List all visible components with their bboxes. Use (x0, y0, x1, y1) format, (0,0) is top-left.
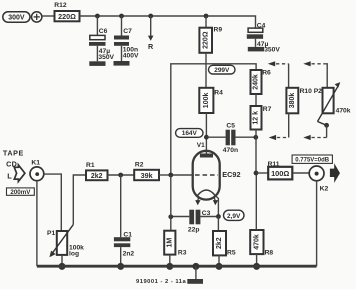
svg-text:R7: R7 (263, 106, 272, 113)
node dot P2 wiper (324, 123, 329, 128)
wire K1 ground drop (36, 181, 38, 267)
label 200mV (7, 188, 35, 196)
capacitor C3 22p (171, 210, 219, 234)
node dot cathode/C3 (216, 214, 221, 219)
node dot grid (168, 173, 173, 178)
resistor R4 100k (199, 88, 223, 113)
resistor R2 39k (134, 161, 159, 180)
ground C4 (248, 47, 264, 52)
svg-text:1M: 1M (166, 238, 173, 248)
svg-text:R2: R2 (135, 161, 144, 168)
wire R1 to R2 (108, 174, 135, 176)
svg-text:R10 P2: R10 P2 (300, 88, 323, 95)
wire output to R11 (256, 172, 268, 174)
svg-text:C3: C3 (202, 210, 211, 217)
node dot ground symbol (192, 263, 199, 270)
wire R4 to anode node (205, 113, 207, 155)
node dot R3/rail (166, 263, 173, 270)
wire R2 to grid node (159, 174, 171, 176)
cathode lead (215, 196, 218, 217)
svg-text:2,9V: 2,9V (227, 213, 241, 220)
resistor R5 2k2 (213, 217, 236, 257)
potentiometer P1 100k log (47, 225, 84, 258)
wire R6 to R7 (255, 94, 257, 106)
wire output node to R8 (255, 173, 257, 230)
svg-text:L: L (7, 171, 12, 180)
wire R3 to rail (169, 255, 171, 267)
svg-text:R6: R6 (262, 70, 271, 77)
wire rail to R9 (205, 16, 207, 28)
svg-text:R5: R5 (227, 249, 236, 256)
wire K1 to P1 top (44, 174, 62, 231)
ground C7 (114, 61, 130, 66)
ground (187, 266, 203, 284)
preset P2 470k (318, 82, 351, 125)
resistor R1 2k2 (86, 162, 108, 180)
node dot output (254, 171, 259, 176)
resistor R6 240k (251, 70, 272, 94)
capacitor C1 2n2 (114, 175, 135, 266)
resistor R10 380k (286, 88, 322, 114)
node dot anode (204, 135, 209, 140)
svg-text:380k: 380k (289, 93, 296, 109)
svg-text:log: log (69, 251, 79, 258)
wire R7 to output node (255, 130, 257, 174)
svg-text:2n2: 2n2 (123, 250, 135, 257)
svg-text:470k: 470k (336, 108, 351, 115)
svg-text:R9: R9 (214, 27, 223, 34)
resistor R7 12k (251, 106, 272, 130)
node dot R-arrow/rail (148, 14, 153, 19)
wire R5 to rail (218, 255, 220, 266)
wire R11 to K2 (292, 172, 309, 174)
capacitor C6 47µ 350V (89, 16, 115, 61)
svg-text:39k: 39k (141, 171, 153, 180)
wire P1 bottom to rail (61, 255, 63, 266)
resistor R9 220Ω (199, 27, 222, 53)
cathode (198, 190, 216, 196)
wire P2 wiper down (326, 125, 328, 137)
node dot C5/R7/R8 (253, 135, 258, 140)
dashed link bottom: arrow to output node (269, 135, 289, 140)
svg-text:200mV: 200mV (10, 189, 31, 196)
svg-text:470n: 470n (223, 147, 238, 154)
node 164V label (176, 129, 203, 138)
svg-text:919001 - 2 - 11a: 919001 - 2 - 11a (136, 279, 186, 285)
node dot grid/C3/R3 (168, 214, 173, 219)
output block arrow (330, 163, 340, 183)
node dot R5/rail (216, 263, 223, 270)
svg-text:R8: R8 (265, 249, 274, 256)
node dot C6/rail (95, 14, 100, 19)
wire grid node down to R3/C3 (170, 175, 172, 231)
svg-text:R3: R3 (178, 249, 187, 256)
node dot C1/rail (117, 263, 124, 270)
svg-text:R: R (148, 42, 154, 51)
wire K2 ground drop (316, 181, 318, 266)
node 2.9V label (224, 210, 245, 220)
node dot P1/rail (59, 263, 66, 270)
svg-text:K1: K1 (31, 160, 40, 167)
label 0.775V=0dB (292, 155, 332, 164)
wire P1 wiper to R1 (73, 175, 86, 225)
svg-text:EC92: EC92 (222, 170, 240, 179)
svg-text:164V: 164V (182, 130, 198, 137)
node dot C7/rail (119, 14, 124, 19)
svg-text:220Ω: 220Ω (58, 12, 76, 21)
svg-text:220Ω: 220Ω (202, 31, 209, 49)
arrow R heater rail (148, 16, 154, 51)
node dot R8/rail (253, 263, 260, 270)
wire feedback grid riser (171, 64, 256, 175)
svg-text:TAPE: TAPE (3, 148, 24, 157)
dashed link top: arrow to R6 node (268, 61, 289, 66)
svg-text:240k: 240k (253, 74, 260, 90)
svg-text:2k2: 2k2 (91, 173, 103, 180)
svg-text:350V: 350V (264, 47, 280, 54)
svg-text:22p: 22p (188, 227, 200, 234)
svg-text:400V: 400V (123, 53, 139, 60)
svg-text:P1: P1 (47, 230, 55, 237)
capacitor C7 100n 400V (114, 16, 139, 61)
heater lead right (214, 196, 215, 200)
dashed link bottom: arrow to R10 node (303, 135, 326, 140)
wire R10 bottom riser (288, 113, 290, 137)
svg-text:300V: 300V (8, 15, 25, 22)
capacitor C5 470n (206, 123, 255, 154)
input block arrow (14, 165, 25, 181)
node 300V supply label (3, 12, 30, 22)
capacitor C4 47µ 350V (247, 22, 281, 53)
resistor R3 1M (164, 231, 187, 257)
svg-text:100k: 100k (203, 93, 210, 109)
resistor R8 470k (250, 230, 273, 256)
anode plate (200, 154, 213, 158)
svg-text:C6: C6 (99, 28, 108, 35)
svg-text:470k: 470k (253, 234, 260, 250)
node dot C1 tap (118, 173, 123, 178)
wire R8 to rail (256, 254, 258, 266)
svg-text:R12: R12 (54, 2, 67, 9)
svg-text:C7: C7 (123, 28, 132, 35)
supply terminal + (32, 12, 42, 22)
dashed link top: arrow to R10 node (303, 61, 327, 88)
svg-text:2k2: 2k2 (216, 237, 223, 249)
svg-text:V1: V1 (197, 142, 205, 149)
wire terminal to R12 (42, 15, 55, 17)
svg-text:299V: 299V (214, 67, 230, 74)
ground C6 (89, 61, 105, 66)
svg-text:100Ω: 100Ω (271, 169, 289, 178)
connector K2 (309, 166, 328, 192)
svg-text:R4: R4 (214, 90, 223, 97)
svg-text:R1: R1 (86, 162, 95, 169)
svg-text:350V: 350V (98, 54, 114, 61)
svg-text:K2: K2 (320, 185, 329, 192)
tube V1 EC92 (171, 142, 241, 217)
wire R9 to R4 (205, 53, 207, 88)
node 299V label (209, 65, 236, 74)
connector K1 (30, 160, 44, 181)
svg-text:12 k: 12 k (253, 111, 260, 125)
heater lead left (197, 196, 200, 200)
resistor R12 220Ω (54, 2, 79, 21)
wire R10 top riser (288, 64, 290, 88)
wire top rail (80, 16, 256, 28)
grid (dashed) (171, 174, 194, 176)
node dot R9/rail (204, 14, 209, 19)
input TAPE/CD/L (3, 148, 24, 180)
svg-text:0.775V=0dB: 0.775V=0dB (295, 158, 330, 164)
svg-text:C5: C5 (226, 123, 235, 130)
resistor R11 100Ω (268, 161, 293, 180)
wire ground rail (37, 265, 317, 268)
